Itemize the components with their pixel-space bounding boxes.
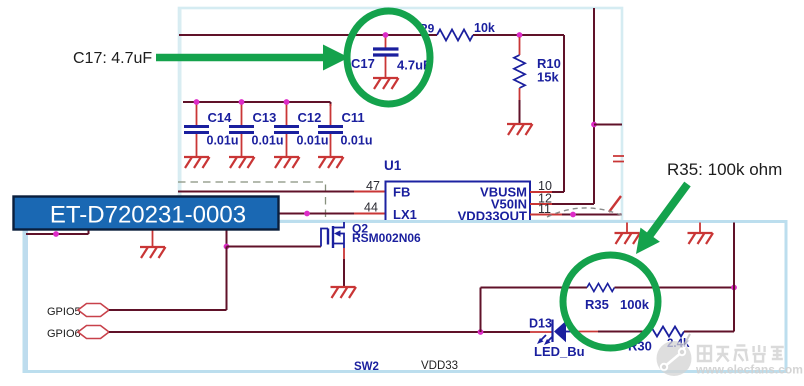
svg-text:GPIO6: GPIO6 <box>47 328 81 340</box>
junction R35/VDD rail <box>731 285 737 291</box>
capacitor C12 <box>286 104 288 125</box>
wire to ground <box>152 231 154 248</box>
wire R10 to ground <box>519 100 521 124</box>
wire gate net <box>227 246 322 248</box>
wire to LED anode <box>530 331 552 333</box>
component fragment at panel edge <box>613 156 624 162</box>
junction LX net <box>304 211 310 217</box>
wire stub to panel edge <box>594 124 622 126</box>
svg-text:LED_Bu: LED_Bu <box>534 344 585 359</box>
junction left net <box>53 231 59 237</box>
ground under C11 <box>318 157 344 168</box>
dashed ellipse fragment <box>547 208 621 217</box>
svg-text:0.01u: 0.01u <box>341 134 373 148</box>
wire R35 net left <box>481 287 588 289</box>
diode D13 LED_Bu <box>551 320 553 343</box>
top schematic panel <box>179 8 622 221</box>
ground under C17 <box>373 78 399 89</box>
svg-text:44: 44 <box>364 201 378 215</box>
svg-text:15k: 15k <box>537 70 559 85</box>
watermark logo <box>657 334 692 376</box>
pin 12 stub <box>530 203 552 205</box>
wire VBUS rail drop to pin 10 <box>563 35 565 192</box>
wire pin 10 <box>552 191 564 193</box>
op-amp / regulator U1 <box>386 182 531 223</box>
wire stub up <box>88 229 90 234</box>
wire to ground <box>626 223 628 234</box>
wire R35 branch riser <box>480 288 482 333</box>
wire GPIO5 net <box>109 309 227 311</box>
wire to ground <box>699 223 701 234</box>
wire below label box <box>26 233 89 235</box>
wire R10 bottom lead <box>519 88 521 100</box>
svg-text:U1: U1 <box>384 158 402 173</box>
wire gate node down to GPIO5 <box>226 247 228 311</box>
capacitor C11 <box>330 104 332 125</box>
svg-text:C14: C14 <box>208 110 233 125</box>
wire from label box to gate node <box>226 231 228 247</box>
resistor R30 <box>648 327 684 337</box>
callout ellipse C17 <box>347 11 430 104</box>
wire pin 11 / VDD33 net <box>562 214 622 216</box>
svg-text:VDD33: VDD33 <box>421 360 458 372</box>
resistor R10 15k <box>514 55 525 88</box>
svg-text:C17: C17 <box>351 56 375 71</box>
capacitor C14 <box>196 104 198 125</box>
junction rail C13 <box>239 99 245 105</box>
ground under C13 <box>229 157 255 168</box>
wire right rail <box>733 223 735 332</box>
wire VBUS rail <box>179 34 564 36</box>
capacitor C17 4.7uF <box>385 37 387 48</box>
wire Q2 source to ground <box>343 259 345 287</box>
ground cut 2 <box>688 233 714 244</box>
ground left <box>140 247 166 258</box>
ground under Q2 <box>331 287 357 298</box>
wire to R30 <box>598 331 648 333</box>
svg-text:11: 11 <box>538 202 551 216</box>
wire R10 top lead <box>519 37 521 55</box>
svg-text:SW2: SW2 <box>354 361 379 373</box>
junction V50IN stub <box>591 122 597 128</box>
resistor R35 100k <box>587 284 614 292</box>
ground under C12 <box>274 157 300 168</box>
callout arrow R35 <box>650 184 688 235</box>
wire R35 net right <box>615 287 735 289</box>
capacitor C13 <box>241 104 243 125</box>
wire FB net <box>178 191 354 193</box>
svg-text:RSM002N06: RSM002N06 <box>352 231 421 245</box>
svg-text:LX1: LX1 <box>393 207 417 222</box>
svg-text:C13: C13 <box>253 110 277 125</box>
svg-text:www.elecfans.com: www.elecfans.com <box>695 363 803 377</box>
pin 47 stub <box>354 191 385 193</box>
svg-text:47: 47 <box>366 179 380 193</box>
resistor R9 10k <box>437 30 473 41</box>
svg-text:0.01u: 0.01u <box>297 134 329 148</box>
svg-text:C11: C11 <box>342 110 365 125</box>
wire Q2 source lead <box>343 248 345 259</box>
junction GPIO6/R35 <box>478 329 484 335</box>
wire pin 12 <box>552 203 594 205</box>
pin 10 stub <box>530 191 552 193</box>
transistor Q2 RSM002N06 <box>321 229 328 247</box>
svg-text:C12: C12 <box>298 110 322 125</box>
junction rail C12 <box>284 99 290 105</box>
wire R30 to rail <box>684 331 734 333</box>
ground under R10 <box>507 124 533 135</box>
ground fragment <box>609 196 621 212</box>
pin 11 stub <box>530 214 562 216</box>
dashed boundary outline <box>178 182 326 219</box>
junction rail C14 <box>194 99 200 105</box>
wire V50IN riser <box>593 8 595 204</box>
svg-text:10k: 10k <box>474 21 495 35</box>
svg-text:D13: D13 <box>529 317 552 331</box>
svg-text:0.01u: 0.01u <box>252 134 284 148</box>
port symbol GPIO6 <box>78 326 109 339</box>
svg-text:FB: FB <box>393 185 410 200</box>
callout arrow C17 <box>156 54 326 62</box>
svg-text:GPIO5: GPIO5 <box>47 306 81 318</box>
junction gate node <box>224 244 230 250</box>
svg-text:100k: 100k <box>620 297 650 312</box>
junction C17/VBUS <box>383 32 389 38</box>
watermark title 电子发烧友 <box>698 345 784 362</box>
wire bypass cap rail <box>183 102 331 106</box>
ground cut 1 <box>615 233 641 244</box>
bottom schematic panel <box>24 222 786 372</box>
svg-text:R35: 100k ohm: R35: 100k ohm <box>667 160 782 179</box>
svg-text:R35: R35 <box>585 297 609 312</box>
callout ellipse R35 <box>563 255 658 348</box>
svg-text:ET-D720231-0003: ET-D720231-0003 <box>50 202 246 229</box>
junction VBUS/R10 <box>517 32 523 38</box>
label box ET-D720231-0003 <box>14 197 279 230</box>
svg-text:C17: 4.7uF: C17: 4.7uF <box>73 50 152 67</box>
wire LX net <box>278 213 354 215</box>
junction VDD33 net <box>570 212 576 218</box>
svg-text:0.01u: 0.01u <box>207 134 239 148</box>
ground under C14 <box>184 157 210 168</box>
wire LED cathode <box>577 331 598 333</box>
wire GPIO6 net <box>109 331 530 333</box>
pin 44 stub <box>354 213 385 215</box>
port symbol GPIO5 <box>78 304 109 317</box>
